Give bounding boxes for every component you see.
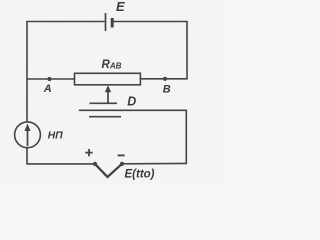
galvanometer needle [27, 127, 29, 146]
label minus [118, 154, 125, 156]
wire left vertical [26, 22, 28, 122]
wire rheostat to right vertical [140, 78, 187, 80]
wire bottom right [122, 162, 186, 164]
node B [163, 77, 167, 81]
wire slider output horizontal [80, 109, 187, 111]
galvanometer НП body [15, 122, 41, 148]
battery E plate long [105, 13, 107, 31]
wire right vertical lower [185, 110, 187, 163]
wire galvanometer down to bottom [26, 149, 28, 164]
rheostat Rab body [75, 73, 141, 85]
wire top-left to battery [27, 21, 104, 23]
label plus [85, 149, 92, 156]
wiper D arrow [90, 88, 118, 103]
battery E plate short thick [111, 18, 114, 28]
standard cell V notch [95, 164, 122, 177]
wire bottom left [27, 163, 95, 165]
wire right vertical upper [186, 22, 188, 79]
wire battery to top-right corner [114, 21, 187, 23]
cell short plate under slider [89, 116, 121, 118]
node A [47, 77, 51, 81]
wire node A to rheostat [27, 78, 75, 80]
plus terminal node [93, 162, 97, 166]
minus terminal node [120, 162, 124, 166]
